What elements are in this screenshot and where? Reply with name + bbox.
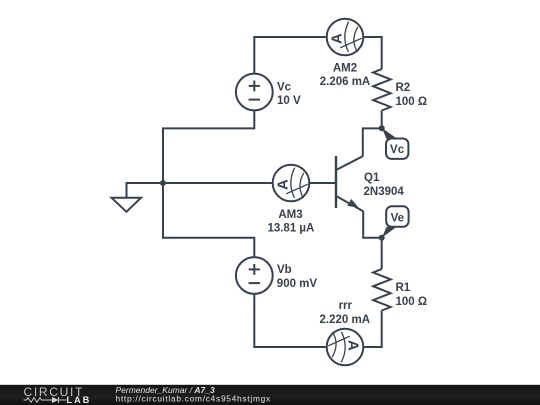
- svg-text:LAB: LAB: [67, 395, 92, 405]
- transistor Q1: [336, 156, 363, 211]
- wire: Vb- down, right through rrr ammeter, up to R1: [254, 294, 381, 347]
- svg-text:100 Ω: 100 Ω: [396, 96, 428, 108]
- wire top: Vc+ up, across through AM2, down to R2: [254, 37, 381, 74]
- svg-text:2.206 mA: 2.206 mA: [320, 76, 371, 88]
- svg-text:AM3: AM3: [278, 209, 302, 221]
- voltage source Vb: [236, 257, 273, 294]
- ammeter rrr (rotated 180): [327, 329, 364, 366]
- junction dot collector node: [379, 125, 385, 131]
- footer bar: [0, 385, 540, 405]
- svg-text:AM2: AM2: [333, 63, 357, 75]
- wire: collector junction to Q1 collector: [363, 128, 382, 156]
- wire: Vc- down, left, down to ground junction, down, right, to Vb+: [163, 110, 254, 257]
- ground: [112, 183, 164, 212]
- svg-text:R1: R1: [396, 282, 411, 294]
- wire: R2 bottom to collector junction: [381, 111, 383, 129]
- svg-text:R2: R2: [396, 82, 411, 94]
- svg-text:10 V: 10 V: [277, 95, 301, 107]
- resistor R1: [373, 269, 391, 310]
- svg-text:100 Ω: 100 Ω: [396, 296, 428, 308]
- svg-text:Vc: Vc: [390, 144, 405, 156]
- ammeter AM2: [327, 19, 364, 56]
- junction dot ground node: [160, 180, 166, 186]
- svg-text:2N3904: 2N3904: [364, 186, 405, 198]
- wire: base net from ground junction through AM3 to Q1 base: [163, 182, 336, 184]
- svg-text:rrr: rrr: [339, 300, 353, 312]
- wire: Q1 emitter to emitter junction: [363, 211, 382, 238]
- node flag Vc: [382, 128, 409, 159]
- svg-text:http://circuitlab.com/c4s954hs: http://circuitlab.com/c4s954hstjmgx: [116, 393, 271, 403]
- CircuitLab logo squiggle resistor and diode: [24, 397, 67, 403]
- svg-text:2.220 mA: 2.220 mA: [320, 314, 371, 326]
- svg-text:13.81 µA: 13.81 µA: [267, 222, 314, 234]
- svg-text:Q1: Q1: [364, 172, 380, 184]
- voltage source Vc: [236, 74, 273, 111]
- svg-text:Ve: Ve: [391, 213, 404, 225]
- ammeter AM3: [273, 165, 310, 202]
- svg-text:Vb: Vb: [277, 264, 292, 276]
- wire: emitter junction down to R1: [381, 238, 383, 269]
- junction dot emitter node: [379, 235, 385, 241]
- svg-text:Vc: Vc: [277, 81, 292, 93]
- node flag Ve: [382, 206, 409, 238]
- svg-text:900 mV: 900 mV: [277, 278, 318, 290]
- resistor R2: [373, 69, 391, 110]
